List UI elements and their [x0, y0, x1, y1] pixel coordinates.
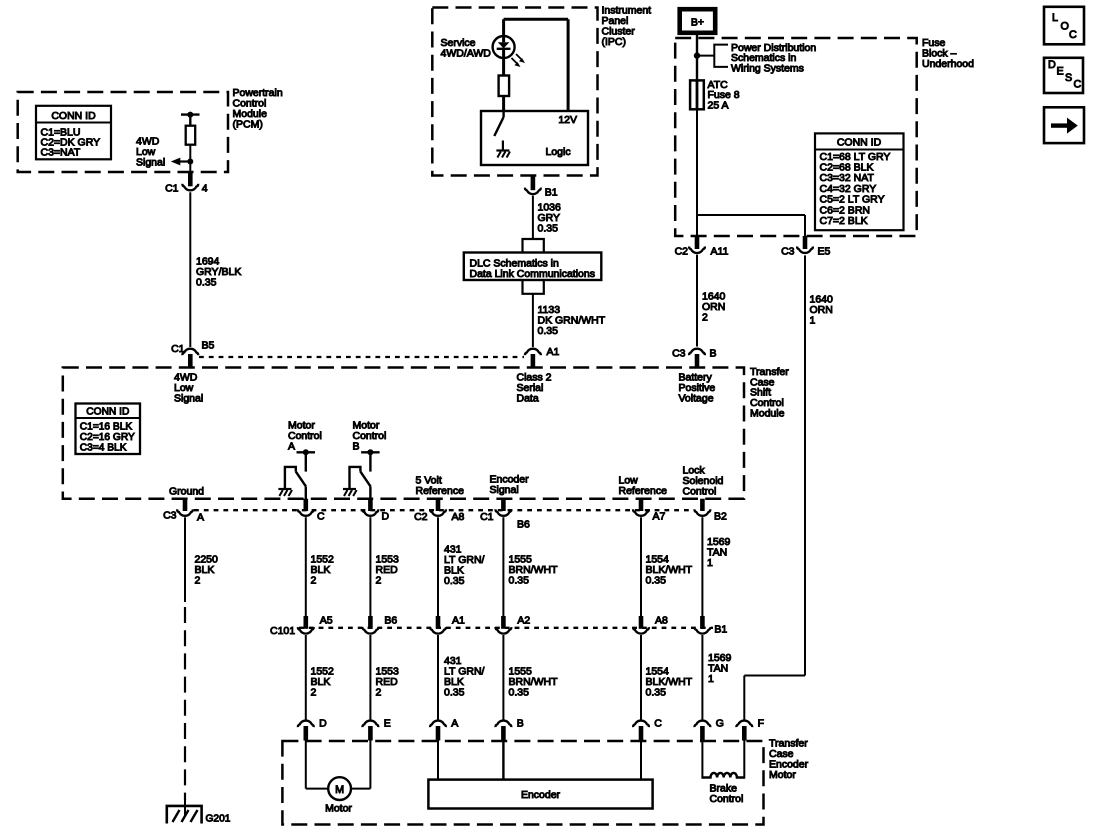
- connector pin G - transfer case encoder motor: [694, 721, 710, 741]
- svg-text:C1=16 BLK: C1=16 BLK: [80, 422, 133, 433]
- PCM internal supply rail: [181, 112, 200, 118]
- svg-text:B: B: [517, 718, 524, 730]
- wire label 1640 ORN 2: [702, 291, 726, 324]
- svg-text:Signal: Signal: [136, 157, 165, 169]
- wire label 1133 DK GRN/WHT 0.35: [538, 304, 606, 337]
- connector C3 pin A - Ground: [177, 509, 193, 516]
- svg-text:C1: C1: [165, 183, 179, 195]
- connector C3 pin B - Battery Positive Voltage: [689, 349, 705, 369]
- svg-text:S: S: [1065, 72, 1072, 84]
- svg-text:Reference: Reference: [416, 485, 465, 497]
- connector pin E - transfer case encoder motor: [362, 721, 378, 741]
- wire: IPC feed loop (12V): [504, 19, 568, 111]
- TCSCM CONN ID table: [76, 404, 141, 455]
- wire: supply to resistor: [189, 115, 191, 126]
- svg-text:B: B: [710, 348, 717, 360]
- wire label 1694 GRY/BLK 0.35: [196, 256, 241, 289]
- wire 1552 BLK 2 (lower): [305, 635, 307, 720]
- wire 2250 BLK 2 (ground) solid part: [184, 517, 186, 602]
- pin label C3 / E5: [781, 246, 830, 258]
- svg-text:Wiring Systems: Wiring Systems: [731, 62, 804, 74]
- in-line connector C101 pin A2: [495, 616, 511, 634]
- svg-text:1: 1: [707, 557, 713, 569]
- svg-text:A: A: [288, 441, 295, 453]
- svg-text:25 A: 25 A: [708, 99, 729, 111]
- svg-text:A8: A8: [655, 615, 668, 627]
- svg-text:CONN ID: CONN ID: [86, 407, 129, 418]
- motor M: [328, 777, 351, 800]
- svg-text:(PCM): (PCM): [233, 118, 263, 130]
- serial data pin row (dotted): [199, 356, 524, 358]
- Lock Solenoid Control label: [683, 465, 724, 498]
- in-line connector below DLC box: [523, 280, 544, 294]
- svg-text:Motor: Motor: [769, 769, 796, 781]
- svg-text:C3=4 BLK: C3=4 BLK: [80, 442, 127, 453]
- connector pin A7 - low reference: [633, 509, 649, 516]
- svg-text:2: 2: [311, 575, 317, 587]
- connector A1 - Class 2 Serial Data: [525, 349, 541, 369]
- Brake Control label: [710, 783, 744, 806]
- PCM CONN ID table: [36, 106, 111, 160]
- svg-text:Voltage: Voltage: [679, 393, 714, 405]
- wire into G201: [184, 798, 186, 817]
- wire 1569 TAN 1 (lower): [701, 635, 703, 720]
- wire 1553 RED 2 (upper): [369, 517, 371, 616]
- IPC logic box: [481, 111, 588, 165]
- svg-text:B: B: [353, 441, 360, 453]
- svg-text:A: A: [451, 718, 458, 730]
- Service 4WD/AWD label: [441, 37, 492, 60]
- motor control A driver switch: [285, 449, 315, 499]
- svg-text:D: D: [1048, 59, 1056, 71]
- svg-text:0.35: 0.35: [509, 575, 530, 587]
- connector pin D - motor control B: [362, 499, 378, 516]
- DLC Schematics reference box: [464, 253, 602, 281]
- svg-text:2: 2: [376, 687, 382, 699]
- svg-text:C2: C2: [414, 511, 428, 523]
- svg-text:A5: A5: [320, 615, 333, 627]
- svg-text:M: M: [335, 784, 344, 796]
- LOC icon: [1044, 7, 1084, 45]
- connector C2 pin A11: [689, 236, 705, 253]
- wire: pin G to brake coil: [701, 740, 703, 779]
- svg-text:B6: B6: [517, 519, 530, 531]
- IPC module label: [602, 5, 652, 49]
- Transfer Case Encoder Motor box: [282, 741, 763, 825]
- svg-text:A7: A7: [653, 511, 666, 523]
- svg-text:C1: C1: [480, 511, 494, 523]
- junction node to Power Distribution ref: [694, 45, 728, 67]
- connector pin C - transfer case encoder motor: [633, 721, 649, 741]
- IPC module box (Instrument Panel Cluster): [432, 8, 597, 176]
- Fuse block CONN ID table: [815, 133, 904, 230]
- connector C2 pin A8 - 5 volt reference: [430, 509, 446, 516]
- wire 1036 GRY 0.35: [532, 196, 534, 239]
- svg-text:C2=16 GRY: C2=16 GRY: [80, 432, 135, 443]
- Motor Control B label: [353, 420, 387, 453]
- svg-text:Motor: Motor: [325, 803, 352, 815]
- svg-text:B5: B5: [202, 340, 215, 352]
- DESC icon: [1044, 58, 1083, 93]
- connector pin D - transfer case encoder motor: [298, 721, 314, 741]
- wire: pin A to encoder: [437, 740, 439, 780]
- svg-text:2: 2: [311, 687, 317, 699]
- svg-text:Data Link Communications: Data Link Communications: [470, 268, 595, 280]
- 4WD Low Signal label (PCM): [136, 136, 165, 169]
- svg-text:A1: A1: [547, 346, 560, 358]
- connector pin A - transfer case encoder motor: [430, 721, 446, 741]
- wire 2250 BLK 2 dashed part to G201: [184, 607, 186, 800]
- wire 1694 GRY/BLK 0.35: [189, 192, 191, 347]
- svg-text:C3=NAT: C3=NAT: [41, 147, 81, 159]
- svg-text:Signal: Signal: [490, 484, 519, 496]
- wire: resistor to signal node: [189, 145, 191, 173]
- wire 1555 BRN/WHT 0.35 (lower): [502, 635, 504, 720]
- wire 1555 BRN/WHT 0.35 (upper): [502, 517, 504, 616]
- svg-text:C3: C3: [781, 246, 795, 258]
- 5 Volt Reference label: [416, 475, 465, 498]
- svg-text:A: A: [197, 512, 204, 524]
- Power Distribution reference label: [731, 42, 816, 74]
- svg-text:Underhood: Underhood: [922, 58, 974, 70]
- svg-text:A8: A8: [452, 511, 465, 523]
- indicator LED Service 4WD/AWD: [493, 36, 525, 67]
- stub: encoder signal pin: [501, 499, 506, 511]
- svg-text:A11: A11: [711, 246, 729, 258]
- motor control B driver switch: [350, 449, 380, 499]
- brake control solenoid coil: [702, 773, 744, 778]
- wire: pin E to motor: [351, 740, 370, 789]
- connector pin C - motor control A: [298, 499, 314, 516]
- svg-text:Ground: Ground: [169, 486, 204, 498]
- svg-text:B2: B2: [714, 511, 727, 523]
- wire: resistor to logic box: [502, 96, 505, 111]
- connector pin B2 - lock solenoid control: [694, 509, 710, 516]
- svg-text:C: C: [1069, 29, 1077, 41]
- svg-text:B1: B1: [714, 624, 727, 636]
- C101 in-line connector row (dashed): [299, 627, 713, 629]
- resistor (IPC lamp): [499, 76, 510, 97]
- svg-text:C2: C2: [675, 246, 689, 258]
- svg-text:D: D: [319, 718, 327, 730]
- svg-text:4WD/AWD: 4WD/AWD: [441, 48, 492, 60]
- svg-text:E5: E5: [818, 246, 831, 258]
- wire label 1640 ORN 1: [810, 294, 834, 327]
- svg-text:C3: C3: [163, 510, 177, 522]
- 4WD Low Signal label (module): [174, 372, 203, 405]
- wire 1554 BLK/WHT 0.35 (lower): [640, 635, 642, 720]
- in-line connector C101 pin A5: [298, 616, 314, 634]
- svg-text:2: 2: [195, 575, 201, 587]
- in-line connector C101 pin A1: [430, 616, 446, 634]
- svg-text:C: C: [317, 511, 325, 523]
- PCM module label: [233, 87, 283, 131]
- wire 1640 ORN 2: [696, 255, 698, 347]
- B+ battery positive terminal: [680, 9, 716, 33]
- wire label 2250 BLK 2: [195, 554, 219, 587]
- in-line connector above DLC box: [523, 239, 544, 253]
- svg-text:G201: G201: [206, 814, 231, 825]
- svg-text:A2: A2: [517, 615, 530, 627]
- svg-text:G: G: [716, 718, 724, 730]
- svg-text:Control: Control: [683, 486, 717, 498]
- svg-text:0.35: 0.35: [444, 687, 465, 699]
- wire: fuse down to C2/A11: [696, 109, 698, 237]
- svg-text:CONN ID: CONN ID: [837, 137, 882, 149]
- Class 2 Serial Data label: [517, 372, 552, 405]
- next arrow icon: [1044, 107, 1084, 143]
- pin label C2 / A11: [675, 246, 729, 258]
- svg-text:B6: B6: [384, 615, 397, 627]
- connector C1 pin B5: [182, 349, 198, 369]
- pin label C1 / 4: [165, 183, 208, 195]
- wire: pin F to brake coil: [743, 740, 745, 779]
- TCSCM module label: [750, 366, 789, 419]
- svg-text:Logic: Logic: [546, 146, 571, 158]
- svg-text:L: L: [1052, 12, 1058, 24]
- svg-text:0.35: 0.35: [509, 687, 530, 699]
- wire label 1036 GRY 0.35: [538, 202, 562, 235]
- svg-text:Module: Module: [750, 407, 785, 419]
- PCM module box (Powertrain Control Module): [18, 92, 228, 172]
- svg-text:0.35: 0.35: [646, 687, 667, 699]
- svg-text:B1: B1: [545, 187, 558, 199]
- wire 431 LT GRN/BLK 0.35 (upper): [437, 517, 439, 616]
- svg-text:CONN ID: CONN ID: [51, 110, 96, 122]
- in-line connector C101 pin B6: [362, 616, 378, 634]
- Fuse Block label: [922, 37, 974, 70]
- svg-text:Signal: Signal: [174, 393, 203, 405]
- connector C3 pin E5: [797, 236, 813, 253]
- svg-text:C7=2 BLK: C7=2 BLK: [820, 215, 868, 227]
- Low Reference label: [619, 475, 668, 498]
- pin label C1 / B5: [171, 340, 214, 356]
- wire: branch to E5: [697, 215, 805, 237]
- in-line connector C101 pin B1: [694, 616, 710, 634]
- svg-text:1: 1: [708, 673, 714, 685]
- svg-text:0.35: 0.35: [538, 325, 559, 337]
- wire: pin B to encoder: [502, 740, 504, 780]
- fuse ATC Fuse 8 25A: [690, 80, 704, 109]
- ground G201: [167, 806, 202, 824]
- svg-text:2: 2: [376, 575, 382, 587]
- connector C1 pin B6 - encoder signal: [495, 509, 511, 516]
- fuse label ATC Fuse 8 25 A: [708, 79, 740, 111]
- in-line connector C101 pin A8: [633, 616, 649, 634]
- svg-text:F: F: [758, 718, 764, 730]
- Encoder Signal label: [490, 474, 530, 497]
- wire: B+ to fuse: [696, 33, 698, 81]
- svg-text:12V: 12V: [558, 114, 577, 126]
- svg-text:1: 1: [810, 315, 816, 327]
- connector pin F - transfer case encoder motor: [736, 721, 752, 741]
- svg-text:2: 2: [702, 312, 708, 324]
- ground (IPC logic): [502, 141, 504, 151]
- svg-text:E: E: [384, 718, 391, 730]
- connector pin B - transfer case encoder motor: [495, 721, 511, 741]
- stub: low ref pin: [639, 499, 644, 511]
- TCEM module label: [769, 738, 809, 782]
- chassis ground inside IPC: [496, 151, 510, 158]
- Motor Control A label: [288, 420, 322, 453]
- svg-text:(IPC): (IPC): [602, 36, 627, 48]
- svg-text:Reference: Reference: [619, 485, 668, 497]
- chassis ground (motor control A): [278, 489, 292, 496]
- wire 431 LT GRN/BLK 0.35 (lower): [437, 635, 439, 720]
- svg-text:Encoder: Encoder: [521, 789, 561, 801]
- wire: pin C to encoder: [640, 740, 642, 780]
- switch inside logic: [494, 111, 503, 136]
- wire 1552 BLK 2 (upper): [305, 517, 307, 616]
- svg-text:C3: C3: [672, 348, 686, 360]
- svg-text:B+: B+: [691, 17, 704, 29]
- wire 1554 BLK/WHT 0.35 (upper): [640, 517, 642, 616]
- svg-text:Data: Data: [517, 393, 539, 405]
- svg-text:A1: A1: [452, 615, 465, 627]
- wire 1553 RED 2 (lower): [369, 635, 371, 720]
- svg-text:C: C: [654, 718, 662, 730]
- Transfer Case Shift Control Module box: [63, 368, 744, 499]
- wire 1640 ORN 1 (E5 to F): [744, 255, 805, 719]
- svg-text:E: E: [1057, 66, 1064, 78]
- svg-text:C: C: [1074, 79, 1082, 91]
- Fuse Block Underhood box: [675, 38, 917, 236]
- svg-text:C101: C101: [270, 625, 295, 637]
- stub: lock solenoid pin: [700, 499, 705, 511]
- svg-text:D: D: [382, 511, 390, 523]
- stub: 5V ref pin: [436, 499, 441, 511]
- stub: ground pin through module edge: [183, 499, 188, 511]
- wire: LED to resistor: [502, 58, 505, 76]
- chassis ground (motor control B): [343, 489, 357, 496]
- encoder box: [428, 780, 652, 809]
- Battery Positive Voltage label: [679, 372, 716, 405]
- svg-text:C1: C1: [171, 343, 185, 355]
- connector C1 pin 4 of PCM: [182, 171, 198, 190]
- wire 1569 TAN 1 (upper): [701, 517, 703, 616]
- svg-text:Control: Control: [710, 793, 744, 805]
- svg-text:0.35: 0.35: [196, 277, 217, 289]
- pin label C3 / B: [672, 348, 716, 360]
- module bottom pin row (dotted): [194, 509, 694, 511]
- svg-text:0.35: 0.35: [444, 575, 465, 587]
- wire: pin D to motor: [306, 740, 328, 789]
- wire 1133 DK GRN/WHT 0.35: [532, 294, 534, 347]
- resistor (PCM pull-up): [186, 126, 196, 145]
- svg-text:O: O: [1061, 21, 1069, 33]
- connector B1 of IPC: [525, 176, 541, 195]
- svg-text:0.35: 0.35: [538, 223, 559, 235]
- node: 4WD Low Signal junction with arrow: [171, 158, 194, 166]
- svg-text:4: 4: [202, 183, 208, 195]
- svg-text:0.35: 0.35: [646, 575, 667, 587]
